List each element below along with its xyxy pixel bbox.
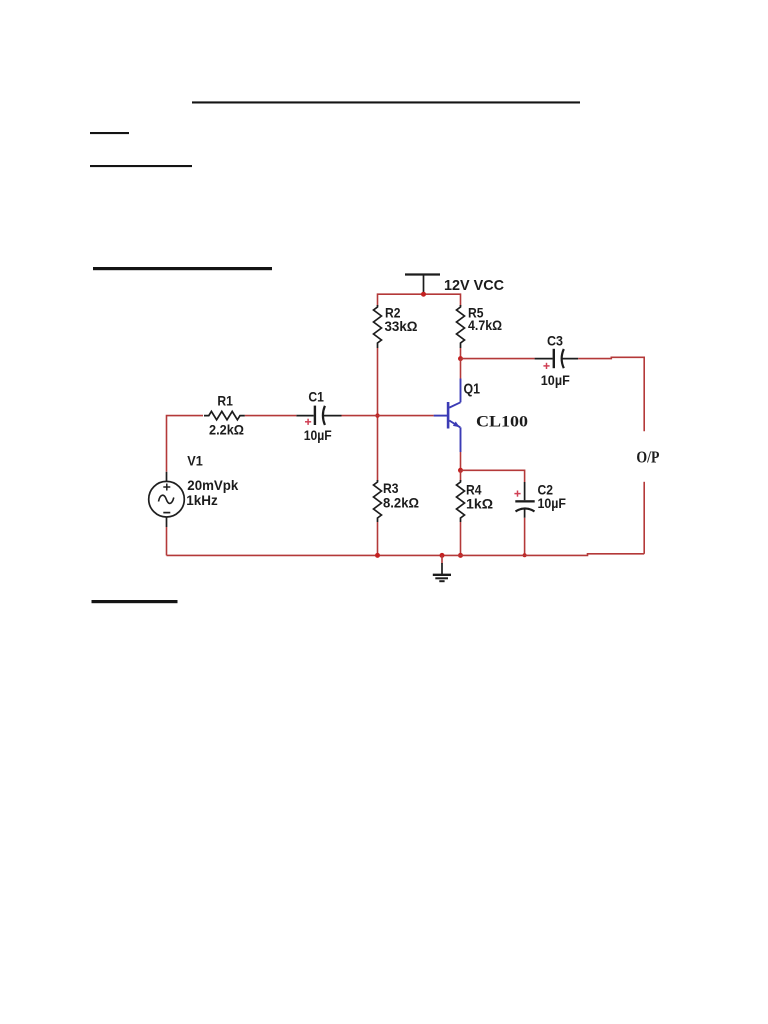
wire R4 bottom xyxy=(460,522,462,555)
ground xyxy=(433,555,451,581)
svg-text:C1: C1 xyxy=(308,389,324,405)
wire R3 bottom xyxy=(377,522,379,555)
svg-text:1kΩ: 1kΩ xyxy=(466,495,493,511)
junction collector node xyxy=(458,356,463,361)
svg-text:CL100: CL100 xyxy=(476,414,528,431)
svg-text:8.2kΩ: 8.2kΩ xyxy=(383,494,419,510)
svg-text:10µF: 10µF xyxy=(304,427,332,443)
source V1 xyxy=(149,472,185,527)
wire bottom rail xyxy=(167,554,645,556)
wire emitter to C2 xyxy=(461,470,525,482)
wire R1 to V1 xyxy=(167,416,204,472)
svg-text:12V VCC: 12V VCC xyxy=(444,277,504,294)
svg-text:10µF: 10µF xyxy=(538,495,567,511)
svg-text:10µF: 10µF xyxy=(541,372,570,388)
junction VCC node xyxy=(421,292,426,297)
wire collector xyxy=(460,359,462,379)
junction base node xyxy=(375,413,379,417)
wire C2 bottom xyxy=(524,518,526,556)
wire output lower xyxy=(643,482,645,554)
resistor R2 xyxy=(374,305,382,348)
section heading rule xyxy=(93,267,272,270)
title underline rule xyxy=(192,101,580,103)
plus mark C3 xyxy=(543,363,549,369)
junction R4 bottom xyxy=(458,553,463,558)
wire VCC rail xyxy=(378,294,461,306)
wire R5 to collector node xyxy=(460,348,462,359)
junction R3 bottom xyxy=(375,553,380,558)
capacitor C2 xyxy=(515,482,534,518)
resistor R3 xyxy=(374,480,382,522)
plus mark C1 xyxy=(305,419,311,425)
capacitor C3 xyxy=(535,349,579,368)
wire base xyxy=(342,415,434,417)
svg-text:2.2kΩ: 2.2kΩ xyxy=(209,421,244,437)
wire R2 to R3 xyxy=(377,348,379,481)
wire C3 to output xyxy=(578,357,644,431)
wire C1 to R1 xyxy=(245,415,296,417)
svg-text:Q1: Q1 xyxy=(464,380,481,397)
wire emitter node to R4 xyxy=(460,470,462,481)
wire emitter xyxy=(460,452,462,470)
second heading rule xyxy=(90,165,192,167)
junction emitter node xyxy=(458,468,463,473)
bottom heading rule xyxy=(92,600,178,603)
resistor R4 xyxy=(457,480,465,522)
svg-text:O/P: O/P xyxy=(636,447,659,466)
resistor R1 xyxy=(204,411,245,419)
resistor R5 xyxy=(457,305,465,348)
transistor Q1 xyxy=(434,379,461,453)
VCC power symbol xyxy=(405,275,440,294)
wire V1 bottom xyxy=(166,527,168,555)
svg-text:C3: C3 xyxy=(547,333,563,349)
svg-text:1kHz: 1kHz xyxy=(186,492,218,508)
svg-text:20mVpk: 20mVpk xyxy=(187,477,238,493)
svg-text:33kΩ: 33kΩ xyxy=(385,318,418,334)
svg-text:V1: V1 xyxy=(187,453,203,469)
plus mark C2 xyxy=(514,491,520,497)
svg-text:4.7kΩ: 4.7kΩ xyxy=(468,317,502,333)
svg-text:R1: R1 xyxy=(217,393,233,409)
wire collector node to C3 xyxy=(461,358,535,360)
capacitor C1 xyxy=(296,406,341,425)
junction C2 bottom xyxy=(523,553,527,557)
short heading rule xyxy=(90,132,129,134)
junction ground node xyxy=(440,553,445,558)
